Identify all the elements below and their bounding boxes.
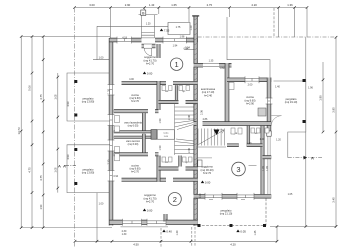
svg-text:1.00: 1.00 <box>99 202 104 205</box>
svg-text:0.90: 0.90 <box>67 154 70 159</box>
unit 3 circle <box>232 162 246 176</box>
canopy step outline <box>227 17 270 78</box>
wall kitchen1 top wall <box>122 81 198 85</box>
svg-text:0.05: 0.05 <box>240 230 246 234</box>
right dimension ticks <box>322 36 338 228</box>
unit 2 circle <box>168 193 181 206</box>
wall bath east wall <box>261 126 265 196</box>
wall kitchen2 right wall <box>157 156 161 182</box>
section line A-A left <box>65 165 76 167</box>
window left w1 <box>108 85 115 96</box>
svg-text:A: A <box>58 164 61 169</box>
pergola post P1b <box>74 114 77 117</box>
svg-text:2.90: 2.90 <box>125 3 131 7</box>
unit 1 circle <box>170 58 182 70</box>
pergola 4 dashed outline <box>194 198 267 225</box>
wall lavanderia1 right wall <box>142 113 146 132</box>
window bottom w1 <box>123 219 142 226</box>
right wall sill box <box>267 131 271 136</box>
bottom dim ext spine dashed <box>192 227 195 247</box>
section line A-A right <box>288 157 322 159</box>
right dim line x323 <box>322 62 324 132</box>
svg-text:1.96: 1.96 <box>308 86 313 89</box>
svg-text:h=2.70: h=2.70 <box>131 99 140 103</box>
circle3 leader line <box>249 164 257 166</box>
porch steps <box>142 33 155 38</box>
svg-text:2.08: 2.08 <box>188 115 191 120</box>
svg-text:0.00: 0.00 <box>147 72 153 76</box>
window right w1 <box>266 98 273 104</box>
svg-text:8.20: 8.20 <box>199 193 202 198</box>
svg-text:3: 3 <box>236 165 240 174</box>
wall kitchen3 top wall <box>227 78 271 82</box>
top dim extension x294 <box>294 8 296 38</box>
window top w1 <box>117 37 132 44</box>
top dim extension x307 <box>306 8 308 38</box>
window left w2 <box>108 115 115 126</box>
level marker unit3 level <box>201 181 211 185</box>
svg-text:h=2.40: h=2.40 <box>204 93 213 97</box>
svg-text:2.30: 2.30 <box>107 159 110 164</box>
svg-text:2: 2 <box>173 195 177 204</box>
top dimension line <box>75 7 308 9</box>
svg-text:scala: scala <box>163 133 169 135</box>
wall lavanderia2 bottom wall <box>114 152 159 156</box>
svg-text:1.35: 1.35 <box>209 60 214 63</box>
svg-text:(mq 6.00): (mq 6.00) <box>128 125 139 128</box>
wall garage right wall <box>225 63 230 124</box>
window left w4 <box>108 171 115 182</box>
stair arrowhead <box>214 130 220 136</box>
wall kitchen2 bottom wall <box>122 178 198 182</box>
pergola post P3a <box>303 79 306 82</box>
label unit2 soggiorno text <box>144 193 157 204</box>
svg-text:4.20: 4.20 <box>230 242 236 246</box>
svg-text:1.94: 1.94 <box>173 45 178 48</box>
party wall block <box>151 130 157 140</box>
svg-text:1.50: 1.50 <box>159 145 162 150</box>
pergola post P3b <box>303 120 306 123</box>
svg-text:1.30: 1.30 <box>107 89 110 94</box>
label autorimessa text <box>201 87 216 97</box>
spine wall cap <box>192 15 199 16</box>
wall kitchen1 right wall <box>157 81 161 110</box>
garage door lines <box>203 64 219 67</box>
roof dashed vert x274 <box>273 8 275 37</box>
wall lavanderia2 right wall <box>142 134 146 153</box>
label unit1 soggiorno text <box>144 55 157 66</box>
level marker porch level 7.55 <box>160 29 170 33</box>
bottom dimension ticks <box>74 225 338 242</box>
svg-text:3.00: 3.00 <box>89 3 95 7</box>
left horizontal y227 <box>21 227 112 229</box>
niche box unit3 <box>198 160 202 167</box>
small dim line y59 <box>93 59 110 61</box>
svg-text:1.30: 1.30 <box>176 230 179 235</box>
right dim ext x305 <box>305 37 307 226</box>
wall entrance wall stub <box>157 44 161 58</box>
wall unit3 middle band <box>194 121 272 126</box>
porch bay walls <box>142 15 155 38</box>
svg-text:1.20: 1.20 <box>146 23 151 26</box>
bottom right dim line <box>270 226 336 228</box>
svg-text:2.08: 2.08 <box>188 148 191 153</box>
window bottom3 w1 <box>205 193 222 200</box>
svg-text:(mq 19.10): (mq 19.10) <box>285 100 298 104</box>
svg-text:1.40: 1.40 <box>275 86 280 89</box>
svg-text:1.30: 1.30 <box>122 233 127 236</box>
label unit3 soggiorno text <box>201 165 214 176</box>
svg-text:1.98: 1.98 <box>180 36 185 39</box>
section line B vertical <box>74 8 76 248</box>
label pergolato 4 text <box>220 209 233 216</box>
winder stair unit2 treads <box>175 139 194 154</box>
wall hall2 wall <box>159 167 198 171</box>
window top w2 <box>163 37 186 44</box>
pergola 3 outline <box>274 81 306 158</box>
svg-text:1.40: 1.40 <box>260 138 265 141</box>
wall left outer wall <box>109 38 113 226</box>
svg-text:A: A <box>311 155 314 160</box>
label vano tecnico text <box>126 140 141 146</box>
label pergolato 3 text <box>285 97 298 104</box>
label pergolato 2 text <box>82 168 95 175</box>
svg-text:4.75: 4.75 <box>39 175 43 181</box>
window bottom3 w2 <box>237 193 254 200</box>
winder stair unit1 treads <box>175 107 194 130</box>
top dim extension x229 <box>229 8 231 18</box>
label cucina1 text <box>129 93 140 103</box>
svg-text:1.90: 1.90 <box>319 95 323 101</box>
porch canopy line <box>139 14 158 16</box>
svg-text:7.55: 7.55 <box>164 29 170 33</box>
stair well boundary <box>174 104 176 155</box>
svg-text:5.06: 5.06 <box>28 85 32 91</box>
svg-text:1.45: 1.45 <box>266 166 269 171</box>
bottom dim ext x161 dashed <box>160 228 162 247</box>
wall hall1 wall <box>159 100 198 104</box>
label lavanderia1 text <box>124 122 142 128</box>
wall porch jamb right <box>152 44 156 48</box>
wc fixtures <box>115 86 193 163</box>
window left w3 <box>108 140 115 151</box>
svg-text:rip.: rip. <box>182 90 186 93</box>
svg-text:h=2.70: h=2.70 <box>131 170 140 174</box>
level marker level +0.05 <box>236 230 246 234</box>
window bottom w2 <box>147 219 166 226</box>
svg-text:1.43: 1.43 <box>149 3 155 7</box>
porch door lines <box>144 44 152 48</box>
pergola post P4b <box>230 224 233 227</box>
top dim extension x158 <box>158 8 160 15</box>
spine wall hatch <box>194 18 198 225</box>
svg-text:1.08: 1.08 <box>54 94 57 99</box>
pergola post P4c <box>263 224 266 227</box>
svg-text:1.35: 1.35 <box>254 230 257 235</box>
wall entrance2 wall stub <box>164 214 168 222</box>
svg-text:4.75: 4.75 <box>28 167 32 173</box>
level marker unit2 level <box>143 209 153 213</box>
svg-text:4.18: 4.18 <box>122 37 127 40</box>
svg-text:(mq 21.10): (mq 21.10) <box>220 212 233 216</box>
wall unit3 bottom wall <box>194 194 272 198</box>
living3 dim line <box>198 157 212 159</box>
svg-text:0.60: 0.60 <box>220 67 225 70</box>
top dimension ticks <box>73 6 308 9</box>
svg-text:1.05: 1.05 <box>288 193 293 196</box>
svg-text:(mq 6.00): (mq 6.00) <box>128 143 139 146</box>
svg-text:3.45: 3.45 <box>332 197 336 203</box>
wall lavanderia1 top wall <box>114 109 159 113</box>
loggia box <box>168 23 190 35</box>
top dim extension x278 <box>278 8 280 38</box>
label cucina2 text <box>129 163 140 173</box>
pergola post P2b <box>74 182 77 185</box>
wall bath divider a <box>247 126 250 147</box>
svg-text:0.94: 0.94 <box>184 47 189 50</box>
left dim line x21 <box>20 37 22 228</box>
right dim line x336 <box>335 37 337 226</box>
wall garage top wall <box>194 63 232 67</box>
wall party wall upper <box>114 130 151 133</box>
unit3 door arc <box>271 116 281 126</box>
bottom dim ext x277 <box>276 227 278 242</box>
svg-text:4.20: 4.20 <box>251 3 257 7</box>
left horizontal y36 <box>21 36 110 38</box>
svg-text:4.00: 4.00 <box>129 78 134 81</box>
svg-text:(mq 13.80): (mq 13.80) <box>82 100 95 104</box>
svg-text:1.75: 1.75 <box>176 26 181 29</box>
porch dim vertical x97 <box>96 26 98 59</box>
pergola post P2a <box>74 148 77 151</box>
svg-text:4.50: 4.50 <box>133 242 139 246</box>
svg-text:14.73: 14.73 <box>17 127 21 134</box>
svg-text:0.94: 0.94 <box>113 175 118 178</box>
svg-text:1: 1 <box>175 60 179 69</box>
wall unit2 bottom wall <box>110 220 198 225</box>
section arrow right <box>304 156 308 160</box>
svg-text:1.08: 1.08 <box>54 167 57 172</box>
svg-text:1.00: 1.00 <box>99 57 104 60</box>
svg-text:0.00: 0.00 <box>205 181 211 185</box>
bottom dim ext x97 <box>96 193 98 242</box>
svg-text:1.40: 1.40 <box>247 142 252 145</box>
svg-text:4.75: 4.75 <box>39 94 43 100</box>
svg-text:h=2.90: h=2.90 <box>246 101 255 105</box>
wall living return wall <box>263 155 272 159</box>
svg-text:h=2.70: h=2.70 <box>203 171 212 175</box>
window kitchen3 window <box>245 76 259 83</box>
unit3 fixtures <box>229 83 269 135</box>
svg-text:0.40: 0.40 <box>166 230 172 234</box>
svg-text:A: A <box>63 164 66 169</box>
porch door arc <box>144 48 151 55</box>
svg-text:0.90: 0.90 <box>67 101 70 106</box>
label pergolato 1 text <box>82 97 95 104</box>
svg-text:2.86: 2.86 <box>203 118 208 121</box>
wall spine wall <box>194 16 198 226</box>
pergola 1 outline <box>67 73 110 121</box>
left dim line x32 <box>31 37 33 228</box>
wall wc1 divider <box>175 85 178 101</box>
pergola post P1a <box>74 80 77 83</box>
level marker unit1 level <box>143 72 153 76</box>
pergola post P4a <box>198 224 201 227</box>
wall party wall lower <box>114 136 151 139</box>
stair landing box <box>157 130 174 139</box>
porch dim horizontal y26 <box>97 25 168 27</box>
svg-text:2.06: 2.06 <box>201 110 204 115</box>
svg-text:1.20: 1.20 <box>190 25 193 30</box>
svg-text:h=2.70: h=2.70 <box>146 62 155 66</box>
wall top wall unit1 <box>110 38 198 42</box>
door marker box B <box>141 10 146 15</box>
stair bottom line <box>196 146 226 148</box>
svg-text:1.45: 1.45 <box>262 166 265 171</box>
svg-text:2.00: 2.00 <box>248 83 253 86</box>
roof dash-dot line <box>198 36 336 38</box>
label cucina3 text <box>244 95 255 105</box>
bottom3 sill ticks <box>209 199 245 201</box>
wall wc2 divider <box>178 156 181 167</box>
svg-text:h=2.70: h=2.70 <box>146 200 155 204</box>
level marker level -0.40 <box>162 230 172 234</box>
wall porch jamb left <box>142 44 144 48</box>
top dim extension x189 <box>188 8 190 23</box>
svg-text:1.50: 1.50 <box>159 118 162 123</box>
svg-text:1.20: 1.20 <box>276 139 281 142</box>
spine dim tick y49 <box>185 49 194 51</box>
left dim line x43 <box>42 37 44 228</box>
top dim extension x144 <box>144 8 146 15</box>
svg-text:0.00: 0.00 <box>147 209 153 213</box>
pergola 2 outline <box>67 145 110 193</box>
left dimension ticks <box>20 35 59 229</box>
left dim line x57 <box>57 73 59 193</box>
bottom sill line <box>121 226 169 228</box>
wall unit3 right wall <box>267 78 271 132</box>
top dim extension x110 <box>110 8 112 40</box>
bottom dimension line <box>75 240 277 242</box>
svg-text:2.75: 2.75 <box>207 3 213 7</box>
svg-text:3.85: 3.85 <box>332 107 336 113</box>
svg-text:1.90: 1.90 <box>40 204 43 209</box>
wall bath bottom wall <box>227 143 263 147</box>
right glazing lines <box>268 136 270 194</box>
svg-text:1.65: 1.65 <box>171 3 177 7</box>
svg-text:(mq 13.80): (mq 13.80) <box>82 171 95 175</box>
svg-text:1.36: 1.36 <box>287 3 293 7</box>
stair unit3 treads <box>198 129 224 146</box>
small dimension labels <box>99 37 293 206</box>
